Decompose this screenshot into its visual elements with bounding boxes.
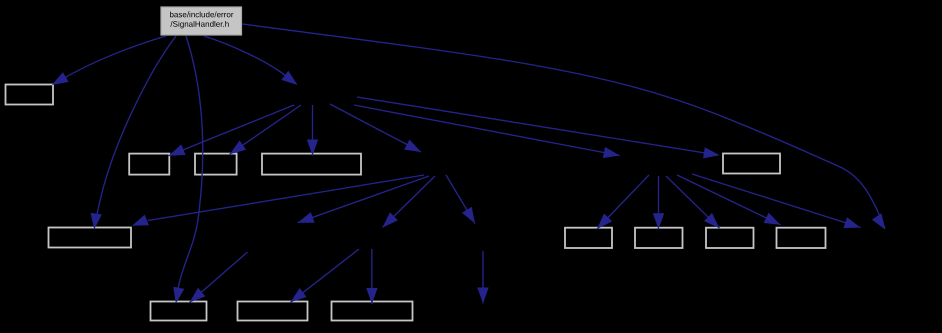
svg-text:base/include/error: base/include/error [169,10,233,19]
svg-text:/SignalHandler.h: /SignalHandler.h [170,20,229,29]
